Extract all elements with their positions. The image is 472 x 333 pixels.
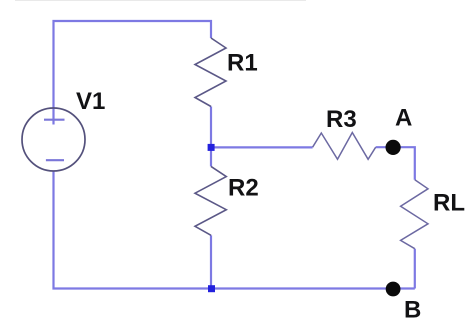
- svg-text:R2: R2: [228, 175, 259, 202]
- wire: mid junction right to R3 left lead: [211, 146, 313, 148]
- wire: R1 bottom through mid junction to R2 top: [210, 107, 212, 167]
- junction: bottom rail node (blue square): [208, 285, 215, 292]
- voltage source V1 (circle with + and -): [22, 108, 85, 171]
- wire: R3 right lead through node A, corner, down to RL top: [376, 147, 415, 180]
- wire: RL bottom lead down to bottom rail corner: [414, 249, 416, 289]
- wire: R2 bottom down to bottom rail junction: [210, 235, 212, 288]
- svg-text:B: B: [404, 297, 421, 324]
- svg-text:R1: R1: [227, 49, 258, 76]
- node B (black dot terminal): [386, 282, 401, 297]
- stray cropped artifact line at top edge: [15, 0, 306, 2]
- resistor R2 (zigzag): [195, 166, 226, 235]
- node A (black dot terminal): [386, 140, 401, 155]
- svg-text:R3: R3: [326, 106, 357, 133]
- resistor RL (vertical zigzag): [401, 180, 428, 249]
- svg-text:V1: V1: [76, 88, 105, 115]
- svg-text:A: A: [395, 105, 412, 132]
- resistor R3 (horizontal zigzag): [313, 133, 376, 160]
- junction: mid node (blue square): [208, 144, 215, 151]
- svg-text:RL: RL: [433, 189, 465, 216]
- wire: V1 minus terminal down to bottom rail and bottom rail across to RL corner: [54, 171, 415, 289]
- wire: V1 plus terminal up, across top, down to R1 top: [54, 21, 212, 125]
- resistor R1 (zigzag): [195, 38, 226, 107]
